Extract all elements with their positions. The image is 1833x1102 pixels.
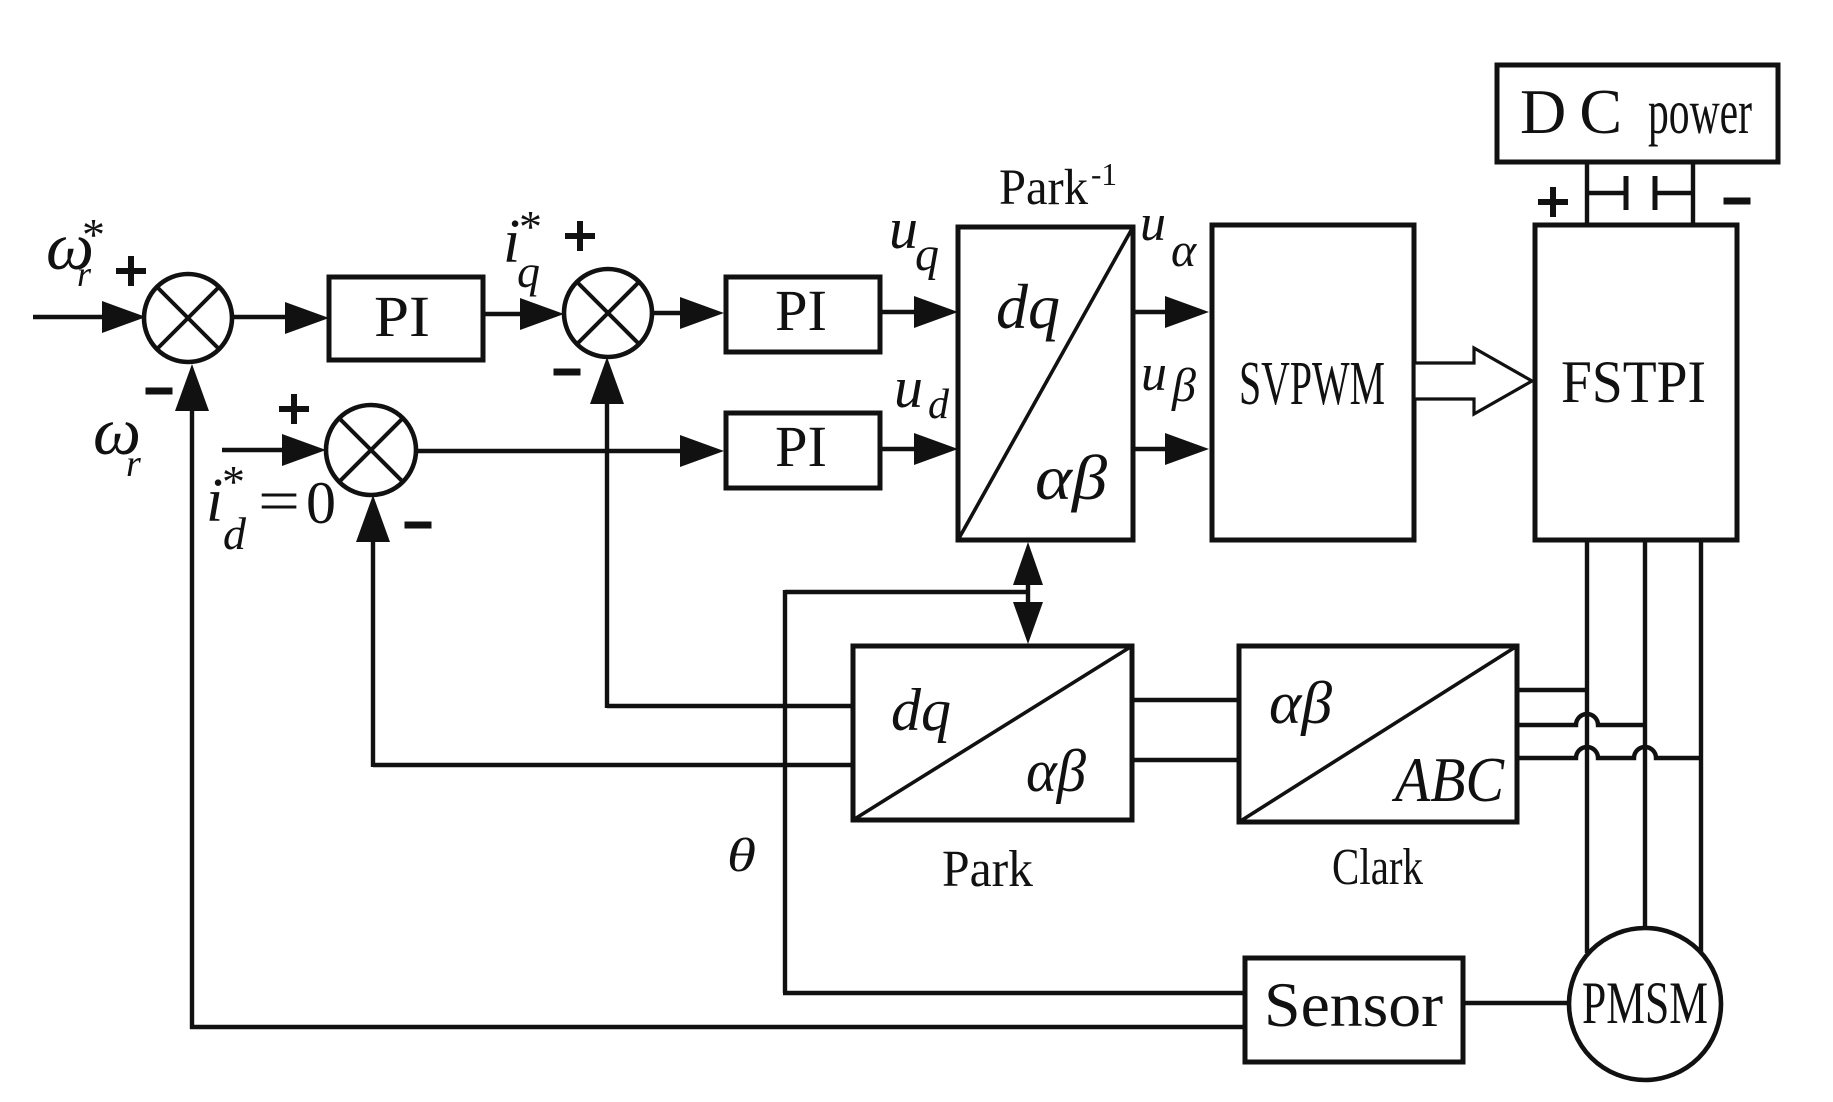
svg-text:FSTPI: FSTPI (1561, 349, 1706, 415)
label u_d (894, 355, 950, 428)
motor PMSM (1569, 928, 1721, 1080)
minus sign at S2 (554, 369, 581, 376)
phase wire B (FSTPI to PMSM) (1643, 540, 1647, 930)
wire Park-1 to SVPWM u_alpha (1133, 296, 1209, 328)
wire PI3 to Park-1 u_d (880, 433, 958, 465)
svg-text:=: = (258, 468, 300, 534)
svg-text:αβ: αβ (1269, 670, 1332, 736)
summing junction S3 (326, 405, 416, 495)
block Sensor (position sensor) (1245, 958, 1463, 1062)
wire Park-1 to SVPWM u_beta (1133, 433, 1209, 465)
feedback wire i_d (Park to S3) (356, 495, 853, 767)
minus sign at DC link (1724, 198, 1751, 205)
label u_alpha (1140, 195, 1197, 277)
label i_d*=0 (206, 456, 336, 559)
wire S1 to PI1 (232, 302, 329, 334)
summing junction S2 (564, 269, 652, 357)
svg-text:dq: dq (996, 271, 1060, 342)
svg-text:r: r (77, 254, 92, 294)
svg-text:u: u (894, 355, 923, 420)
wire PI1 to S2 (483, 298, 564, 330)
label u_q (889, 196, 939, 281)
svg-text:Park: Park (999, 160, 1088, 216)
wire Park-Clark i_alpha (1132, 698, 1239, 702)
capacitor C (DC link) (1587, 176, 1693, 210)
block PI1 (speed PI controller) (329, 277, 483, 360)
svg-text:q: q (915, 228, 939, 281)
svg-text:r: r (126, 443, 141, 485)
wire PI2 to Park-1 u_q (880, 296, 958, 328)
svg-text:u: u (889, 196, 918, 261)
svg-text:β: β (1171, 359, 1196, 412)
svg-text:ABC: ABC (1391, 744, 1505, 815)
label omega_r* (speed reference) (46, 208, 105, 294)
wire Park-Clark i_beta (1132, 758, 1239, 762)
DC link wire left (1585, 162, 1589, 225)
minus sign at S3 (405, 522, 432, 529)
svg-text:PI: PI (374, 284, 430, 349)
block FSTPI (four-switch three-phase inverter) (1535, 225, 1737, 540)
svg-text:PI: PI (775, 278, 827, 343)
label Park-1 (999, 156, 1117, 216)
svg-text:i: i (206, 467, 223, 535)
svg-text:q: q (517, 246, 540, 297)
svg-text:θ: θ (727, 829, 756, 882)
wire Clark to phase B (hop over phase A) (1517, 714, 1645, 725)
svg-text:Sensor: Sensor (1264, 970, 1443, 1040)
wire into S3 (222, 434, 326, 466)
svg-text:*: * (222, 456, 245, 507)
svg-text:*: * (82, 209, 105, 260)
svg-text:d: d (928, 382, 950, 428)
label i_q* (q-axis current ref) (503, 201, 542, 297)
wire Clark to phase A (1517, 688, 1587, 692)
wire S2 to PI2 (652, 297, 724, 329)
plus sign at summing junction S2 (565, 221, 595, 251)
block Park-1 (inverse Park transform dq->alphabeta) (958, 227, 1133, 540)
minus sign at S1 (146, 388, 173, 395)
svg-text:-1: -1 (1091, 156, 1117, 192)
block PI2 (q-axis current PI controller) (726, 277, 880, 352)
svg-text:dq: dq (891, 677, 951, 743)
wire theta from Sensor (783, 991, 1245, 995)
wire S3 to PI3 (416, 435, 724, 467)
label omega_r (measured speed) (93, 393, 141, 485)
svg-text:PI: PI (775, 414, 827, 479)
svg-text:d: d (223, 508, 247, 559)
wire theta horizontal to double arrow (785, 590, 1028, 594)
svg-text:power: power (1648, 76, 1752, 147)
wire Clark to phase C (hops over phases A and B) (1517, 747, 1701, 758)
wire Sensor to PMSM (1463, 1001, 1571, 1005)
phase wire C (FSTPI to PMSM) (1699, 540, 1703, 953)
block Clark (Clarke transform) (1239, 646, 1517, 822)
plus sign at summing junction S1 (116, 256, 146, 286)
summing junction S1 (144, 274, 232, 362)
DC link wire right (1691, 162, 1695, 225)
svg-text:*: * (519, 201, 542, 252)
svg-text:u: u (1141, 345, 1167, 402)
phase wire A (FSTPI to PMSM) (1585, 540, 1589, 953)
block Park (abc/dq transform) (853, 646, 1132, 820)
block PI3 (d-axis current PI controller) (726, 413, 880, 488)
plus sign at summing junction S3 (279, 394, 309, 424)
node omega_r* input wire (33, 301, 146, 333)
svg-text:PMSM: PMSM (1582, 970, 1708, 1036)
block DC power (1497, 65, 1778, 162)
svg-text:0: 0 (306, 470, 336, 536)
plus sign at DC link (1538, 187, 1568, 217)
svg-text:αβ: αβ (1035, 442, 1107, 513)
svg-text:u: u (1140, 195, 1166, 252)
feedback wire i_q (Park to S2) (590, 357, 853, 708)
double arrow theta between Park-1 and Park (1013, 542, 1043, 644)
block SVPWM (1212, 225, 1414, 540)
svg-text:Clark: Clark (1332, 839, 1423, 896)
label u_beta (1141, 345, 1196, 412)
svg-text:Park: Park (942, 841, 1033, 898)
svg-text:SVPWM: SVPWM (1239, 350, 1385, 418)
open block arrow SVPWM to FSTPI (1414, 348, 1532, 414)
svg-text:αβ: αβ (1026, 738, 1086, 804)
feedback wire omega_r (Sensor to S1) (175, 364, 1245, 1029)
svg-text:α: α (1171, 224, 1197, 277)
wire theta vertical (783, 590, 787, 993)
